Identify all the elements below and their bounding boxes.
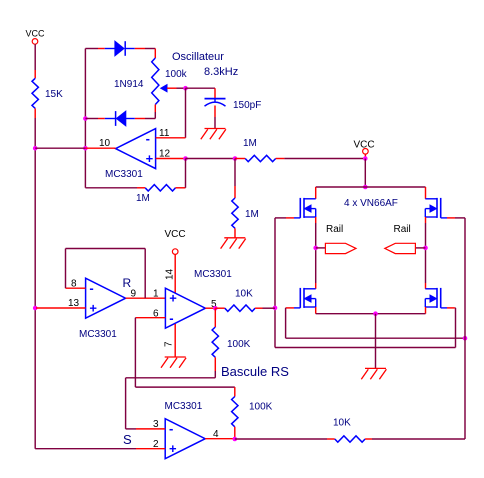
svg-text:Oscillateur: Oscillateur — [172, 51, 224, 63]
ground GND1 — [205, 128, 226, 130]
svg-text:2: 2 — [153, 439, 159, 450]
wire source Q1 to rail node — [315, 217, 317, 223]
pin 3 of U4 — [136, 428, 165, 430]
node right rail — [423, 246, 428, 251]
pin 10 of U1 output — [85, 147, 115, 149]
node pin12 junction — [183, 156, 188, 161]
wire loop bottom right segment — [145, 118, 155, 120]
svg-text:13: 13 — [68, 298, 80, 309]
op-amp U3 MC3301 — [165, 288, 205, 328]
svg-text:1M: 1M — [243, 138, 257, 149]
svg-text:1M: 1M — [136, 193, 150, 204]
svg-text:100K: 100K — [249, 402, 273, 413]
svg-text:10K: 10K — [235, 289, 253, 300]
wire wiper to node — [177, 87, 186, 89]
wire loop top to D1 — [85, 48, 98, 50]
ground GND4 — [365, 367, 386, 369]
wire oscillator loop left vertical — [84, 49, 86, 188]
node 1M junction — [233, 156, 238, 161]
svg-text:MC3301: MC3301 — [79, 329, 117, 340]
wire VCC node down to bridge rail — [364, 159, 366, 188]
wire gate net X vertical — [274, 218, 276, 348]
op-amp U1 MC3301 — [116, 129, 156, 169]
transistor Q4 VN66AF (bottom-right) — [441, 307, 447, 309]
wire pin12 node to R4 — [235, 158, 245, 160]
svg-text:100K: 100K — [227, 339, 251, 350]
wire VCC1 to R1 — [34, 44, 36, 70]
op-amp U4 MC3301 (S) — [165, 419, 205, 459]
svg-text:4 x VN66AF: 4 x VN66AF — [344, 198, 398, 209]
svg-text:7: 7 — [164, 341, 175, 347]
wire R9 to outer vertical — [365, 438, 372, 440]
pin 5 output of U3 — [205, 307, 215, 309]
svg-text:14: 14 — [165, 268, 176, 280]
wire VCC to node — [364, 154, 366, 158]
wire drain Q2 — [425, 187, 427, 199]
svg-text:+: + — [169, 441, 177, 456]
wire wiper node to C1 — [186, 87, 216, 89]
diode D2 1N914 — [105, 118, 116, 120]
svg-text:-: - — [89, 281, 93, 296]
node junction loop/diode D2 — [83, 116, 88, 121]
wire R1 to left column — [34, 108, 36, 118]
pin 12 of U1 — [156, 158, 186, 160]
resistor R7 100K — [212, 327, 218, 357]
svg-text:10K: 10K — [333, 418, 351, 429]
wiper arrow of R2 — [161, 85, 167, 92]
pin 4 output of U4 — [205, 438, 235, 440]
svg-text:MC3301: MC3301 — [165, 401, 203, 412]
wire R5 to ground — [234, 228, 236, 238]
svg-text:-: - — [169, 421, 173, 436]
svg-text:8.3kHz: 8.3kHz — [204, 66, 238, 78]
pin 8 of U2 — [66, 287, 86, 289]
wire gate Q3 — [286, 307, 294, 309]
svg-text:+: + — [169, 291, 177, 306]
node left rail — [313, 246, 318, 251]
svg-text:Rail: Rail — [394, 224, 411, 235]
wire wiper node down to pin 11 — [185, 88, 187, 138]
wire R4 to VCC node — [276, 158, 285, 160]
wire gate net Y (line 1) — [286, 337, 465, 339]
wire source Q4 to bottom rail — [425, 307, 427, 314]
svg-text:3: 3 — [153, 419, 159, 430]
wire drain Q4 — [425, 283, 427, 289]
node VCC/1M junction — [363, 156, 368, 161]
wire pin5 to R6 — [215, 307, 225, 309]
node gate Y junction — [463, 336, 468, 341]
wire R3 to pin12 node — [176, 187, 186, 189]
wire pin 14 of U3 — [174, 254, 176, 293]
wire R8 to pin4 node — [234, 427, 236, 439]
wire U1 feedback bottom — [85, 187, 137, 189]
rail arrow left (points right) — [316, 247, 326, 249]
wire D1 to potentiometer — [135, 48, 145, 50]
pin 2 of U4 — [136, 448, 165, 450]
node pin 4 junction — [233, 437, 238, 442]
wire R7 to line A — [214, 357, 216, 371]
svg-text:10: 10 — [99, 138, 111, 149]
resistor R6 10K — [225, 305, 255, 311]
transistor Q3 VN66AF (bottom-left) — [294, 307, 300, 309]
wire gate net Y vertical left — [285, 308, 287, 338]
svg-text:1N914: 1N914 — [114, 79, 144, 90]
svg-text:+: + — [89, 300, 97, 315]
svg-text:+: + — [146, 151, 154, 166]
pin 13 of U2 — [36, 307, 86, 309]
op-amp U2 MC3301 (R) — [86, 278, 126, 318]
pin 11 of U1 — [156, 137, 186, 139]
potentiometer R2 100k — [152, 58, 159, 105]
svg-text:S: S — [123, 432, 132, 447]
wire line B (pin6 to R8) — [135, 386, 234, 388]
svg-text:VCC: VCC — [165, 229, 186, 240]
svg-text:15K: 15K — [45, 89, 63, 100]
wire line A (R7 to U4 pin3) — [126, 377, 216, 379]
wire C1 to ground — [214, 106, 216, 118]
svg-text:MC3301: MC3301 — [194, 269, 232, 280]
svg-text:1: 1 — [153, 289, 159, 300]
transistor Q2 VN66AF (top-right) — [441, 217, 447, 219]
wire pin 7 of U3 to ground — [174, 324, 176, 357]
svg-text:100k: 100k — [165, 69, 188, 80]
svg-text:VCC: VCC — [26, 29, 46, 39]
svg-text:-: - — [146, 131, 150, 146]
node top rail junction — [363, 185, 368, 190]
wire left column to U4 pin 2 — [35, 448, 136, 450]
wire pin4 node to R9 — [235, 438, 327, 440]
wire pin5 down to R7 — [214, 308, 216, 327]
pin 6 of U3 — [136, 317, 165, 319]
wire left column vertical — [34, 118, 36, 449]
ground GND3 — [165, 356, 186, 358]
wire pin12 node right — [186, 158, 236, 160]
svg-text:Rail: Rail — [326, 224, 343, 235]
wire drain Q1 — [315, 187, 317, 199]
transistor Q1 VN66AF (top-left) — [294, 217, 300, 219]
svg-text:1M: 1M — [245, 209, 259, 220]
wire pin6 to line B — [134, 317, 137, 319]
svg-text:R: R — [123, 276, 132, 290]
resistor R1 15K — [32, 78, 38, 108]
node bottom rail center — [373, 311, 378, 316]
wire drain Q3 — [315, 283, 317, 289]
resistor R4 1M (to VCC) — [245, 155, 276, 161]
wire outer right vertical — [464, 218, 466, 439]
wire line B down to R8 — [234, 387, 236, 396]
node wiper junction — [183, 86, 188, 91]
resistor R5 1M (to ground) — [232, 198, 238, 228]
wire bottom rail — [316, 313, 426, 315]
wire gate Q4 — [454, 307, 457, 309]
node pin 5 junction — [213, 306, 218, 311]
wire top rail — [316, 186, 426, 188]
capacitor C1 150pF — [205, 98, 226, 100]
node gate X junction — [273, 306, 278, 311]
wire potentiometer bottom — [154, 105, 156, 113]
wire source Q2 to rail node — [425, 217, 427, 223]
ground GND2 — [224, 237, 245, 239]
wire source Q3 to bottom rail — [315, 307, 317, 314]
svg-text:MC3301: MC3301 — [105, 169, 143, 180]
svg-text:150pF: 150pF — [233, 100, 261, 111]
svg-text:-: - — [169, 310, 173, 325]
resistor R8 100K — [232, 397, 238, 427]
svg-text:12: 12 — [159, 149, 171, 160]
wire pin10 to left column — [35, 147, 85, 149]
svg-text:8: 8 — [71, 279, 77, 290]
node junction pin10/left column — [33, 146, 38, 151]
pin 9 output of U2 to U3 pin 1 — [126, 297, 166, 299]
svg-text:9: 9 — [131, 289, 137, 300]
diode D1 1N914 — [105, 48, 115, 50]
wire R6 to gate node X — [255, 307, 262, 309]
svg-text:11: 11 — [159, 128, 170, 139]
wire bottom rail to ground — [375, 314, 377, 369]
rail arrow right (points left) — [415, 247, 425, 249]
wire U2 feedback — [144, 249, 146, 299]
node junction pin13/left column — [33, 306, 38, 311]
wire D2 to loop left — [98, 118, 105, 120]
svg-text:4: 4 — [213, 429, 219, 440]
resistor R3 1M (feedback) — [145, 185, 175, 191]
wire gate Q1 — [286, 217, 294, 219]
resistor R9 10K — [335, 436, 365, 442]
wire gate Q2 — [447, 217, 455, 219]
svg-text:Bascule RS: Bascule RS — [221, 364, 289, 379]
wire 1M node down to R5 — [234, 159, 236, 187]
node junction loop/pin10 — [83, 146, 88, 151]
wire gate net X lower (line 2) — [275, 347, 456, 349]
